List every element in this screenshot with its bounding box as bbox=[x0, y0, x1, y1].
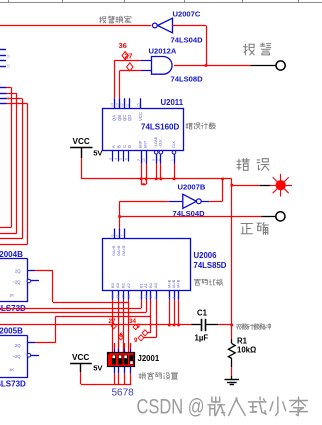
svg-text:U2004B: U2004B bbox=[0, 250, 23, 259]
connector 9 (bus) bbox=[137, 324, 141, 330]
svg-text:IA<B: IA<B bbox=[177, 279, 181, 288]
flip-flop U2005B 74LS73D bbox=[0, 327, 39, 389]
svg-text:A3: A3 bbox=[115, 282, 120, 288]
svg-text:1: 1 bbox=[170, 159, 174, 161]
svg-text:U2007C: U2007C bbox=[173, 10, 201, 19]
label 错误计数 bbox=[186, 123, 215, 129]
svg-text:14: 14 bbox=[110, 103, 114, 107]
wire to correct probe bbox=[120, 216, 276, 218]
svg-text:10: 10 bbox=[127, 295, 131, 299]
wires password bits to DIP switch bbox=[113, 300, 129, 353]
switch J2001 DIP bbox=[108, 353, 160, 367]
and-gate U2012A bbox=[141, 47, 203, 84]
wire QA to AND input A bbox=[114, 60, 141, 98]
label 密码比较 bbox=[194, 279, 222, 285]
svg-text:2Q: 2Q bbox=[15, 269, 21, 274]
svg-text:6: 6 bbox=[125, 158, 129, 160]
svg-text:4: 4 bbox=[114, 158, 118, 160]
sheet border top bbox=[0, 0, 322, 3]
svg-text:IA=B: IA=B bbox=[172, 279, 176, 288]
svg-text:5678: 5678 bbox=[112, 388, 135, 399]
svg-text:1D: 1D bbox=[7, 63, 11, 68]
power VCC2 5V bbox=[70, 353, 103, 373]
svg-text:9: 9 bbox=[152, 159, 156, 161]
ground bbox=[225, 376, 240, 385]
connector 27 diamond bbox=[127, 63, 133, 71]
svg-text:~2Q: ~2Q bbox=[12, 280, 21, 285]
svg-text:11: 11 bbox=[149, 295, 153, 299]
svg-text:12: 12 bbox=[122, 295, 126, 299]
svg-text:3: 3 bbox=[109, 158, 113, 160]
svg-text:2: 2 bbox=[157, 159, 161, 161]
svg-text:74LS04D: 74LS04D bbox=[171, 36, 204, 45]
counter U2011 74LS160D bbox=[103, 98, 184, 164]
wire VCC2 to rail bbox=[80, 372, 82, 384]
svg-text:1K: 1K bbox=[9, 293, 14, 298]
svg-text:5: 5 bbox=[119, 158, 123, 160]
svg-text:2D: 2D bbox=[6, 95, 10, 100]
label 报警 bbox=[244, 43, 271, 55]
wire U2004B 2Q out bbox=[35, 270, 129, 303]
svg-text:15: 15 bbox=[111, 295, 115, 299]
svg-text:7: 7 bbox=[121, 235, 125, 237]
svg-text:IA>B: IA>B bbox=[167, 279, 171, 288]
connector 34 (bus) bbox=[129, 318, 138, 330]
wire alarm output bbox=[174, 64, 276, 67]
wire alarm latch bbox=[0, 25, 151, 27]
svg-text:C: C bbox=[122, 145, 127, 148]
svg-text:CSDN @: CSDN @ bbox=[137, 396, 205, 419]
power VCC1 5V bbox=[70, 137, 103, 158]
svg-text:5V: 5V bbox=[93, 363, 103, 372]
svg-text:74LS73D: 74LS73D bbox=[0, 380, 26, 389]
svg-text:QC: QC bbox=[122, 115, 127, 121]
svg-text:74LS08D: 74LS08D bbox=[171, 75, 204, 84]
connector 36 label bbox=[119, 41, 127, 50]
wire bus Q1 row bbox=[0, 308, 141, 310]
svg-text:A: A bbox=[111, 145, 116, 148]
wire B0 connector bbox=[138, 300, 156, 341]
connector 27 label bbox=[124, 52, 132, 61]
probe 报警 lamp bbox=[276, 61, 285, 70]
svg-text:9: 9 bbox=[154, 297, 158, 299]
svg-text:10kΩ: 10kΩ bbox=[237, 346, 256, 355]
net 报警锁定 label bbox=[100, 16, 132, 23]
wire A0 connector bbox=[142, 317, 151, 336]
wire U2005B 2Q out bbox=[35, 317, 151, 343]
wires DIP bottom pins to 5V rail bbox=[81, 367, 131, 385]
label 5678 bbox=[112, 388, 135, 399]
svg-text:D: D bbox=[127, 145, 132, 148]
label 次数计数脉冲 bbox=[236, 324, 270, 330]
probe 正确 lamp bbox=[276, 212, 285, 221]
wire to C1 bbox=[191, 324, 201, 326]
svg-text:VCC: VCC bbox=[73, 137, 90, 146]
svg-text:11: 11 bbox=[126, 103, 130, 107]
svg-text:B2: B2 bbox=[121, 282, 126, 288]
wire R1 to ground bbox=[231, 367, 233, 376]
capacitor C1 1uF bbox=[195, 309, 209, 343]
label 正确 bbox=[241, 223, 268, 235]
wires U2011 control pins to bus bbox=[140, 164, 175, 186]
svg-text:74LS160D: 74LS160D bbox=[141, 123, 179, 132]
wire bus from left chip to left edge bbox=[0, 87, 28, 244]
svg-text:U2012A: U2012A bbox=[149, 47, 177, 56]
svg-text:VCC: VCC bbox=[72, 353, 89, 362]
svg-text:OA<B: OA<B bbox=[121, 245, 126, 256]
wire A=B to inverter bbox=[118, 201, 169, 228]
svg-text:QA: QA bbox=[112, 115, 117, 121]
svg-text:VCC: VCC bbox=[138, 112, 143, 121]
wire U2007C output feedback bbox=[173, 26, 207, 66]
svg-text:14: 14 bbox=[144, 295, 148, 299]
svg-text:1C: 1C bbox=[7, 53, 11, 58]
op-amp U2007B inverter bbox=[169, 183, 209, 219]
svg-text:1K: 1K bbox=[9, 367, 14, 372]
wire QB to AND input B bbox=[120, 71, 142, 99]
svg-text:2: 2 bbox=[177, 297, 181, 299]
pins of off-canvas chip (left edge) bbox=[0, 50, 11, 69]
svg-text:4: 4 bbox=[167, 297, 171, 299]
svg-text:U2006: U2006 bbox=[194, 251, 218, 260]
wires cascade inputs bbox=[168, 300, 180, 327]
svg-text:U2011: U2011 bbox=[161, 98, 184, 107]
wire VCC1 to enable bus bbox=[81, 158, 232, 179]
connector 27 (bus) bbox=[109, 318, 117, 329]
op-amp U2007C inverter bbox=[152, 10, 203, 45]
svg-text:A0: A0 bbox=[153, 282, 158, 288]
svg-text:ENP: ENP bbox=[139, 140, 143, 148]
svg-text:~LOAD: ~LOAD bbox=[154, 136, 158, 148]
svg-text:36: 36 bbox=[119, 41, 127, 50]
svg-text:74LS85D: 74LS85D bbox=[194, 261, 227, 270]
svg-text:QD: QD bbox=[127, 115, 132, 121]
svg-text:~CLK: ~CLK bbox=[159, 139, 163, 148]
svg-text:10: 10 bbox=[142, 158, 146, 162]
svg-text:ENT: ENT bbox=[143, 140, 147, 148]
wire inverter out to bus bbox=[209, 178, 224, 202]
svg-text:J2001: J2001 bbox=[138, 354, 160, 363]
connector 9b (bus) bbox=[134, 338, 138, 344]
svg-text:A2: A2 bbox=[126, 282, 131, 288]
svg-text:U2007B: U2007B bbox=[178, 183, 206, 192]
wire to error lamp bbox=[232, 185, 271, 187]
wire bus clock row bbox=[0, 324, 191, 326]
svg-text:12: 12 bbox=[120, 103, 124, 107]
probe 错误 lamp lit bbox=[269, 174, 292, 197]
svg-text:C1: C1 bbox=[197, 309, 208, 318]
label 锁密码设置 bbox=[139, 373, 178, 380]
wire A-group stubs bbox=[142, 300, 151, 317]
wires DIP top pins bbox=[115, 343, 131, 353]
svg-text:15: 15 bbox=[137, 103, 141, 107]
comparator U2006 74LS85D bbox=[103, 229, 227, 300]
svg-text:5V: 5V bbox=[93, 149, 103, 158]
svg-text:5: 5 bbox=[115, 235, 119, 237]
connector 6 (bus) bbox=[118, 333, 123, 340]
wire C1 to R1 node bbox=[205, 324, 232, 326]
svg-text:2Q: 2Q bbox=[15, 343, 21, 348]
svg-text:~2Q: ~2Q bbox=[12, 354, 21, 359]
label 错误 bbox=[237, 159, 269, 171]
svg-text:CLK: CLK bbox=[172, 140, 176, 148]
connector 36 diamond bbox=[122, 52, 128, 60]
wire error vertical bbox=[231, 179, 234, 339]
svg-text:27: 27 bbox=[124, 52, 132, 61]
flip-flop U2004B 74LS73D bbox=[0, 250, 39, 313]
watermark CSDN bbox=[137, 396, 308, 419]
svg-text:7: 7 bbox=[137, 159, 141, 161]
wire bus Q2 row bbox=[0, 312, 146, 314]
svg-text:13: 13 bbox=[115, 103, 119, 107]
svg-text:U2005B: U2005B bbox=[0, 327, 23, 336]
svg-text:1µF: 1µF bbox=[195, 334, 209, 343]
resistor R1 10k bbox=[228, 337, 256, 368]
svg-text:R1: R1 bbox=[237, 337, 248, 346]
svg-text:1: 1 bbox=[139, 297, 143, 299]
svg-text:3: 3 bbox=[172, 297, 176, 299]
svg-text:6: 6 bbox=[111, 235, 115, 237]
svg-text:13: 13 bbox=[116, 295, 120, 299]
